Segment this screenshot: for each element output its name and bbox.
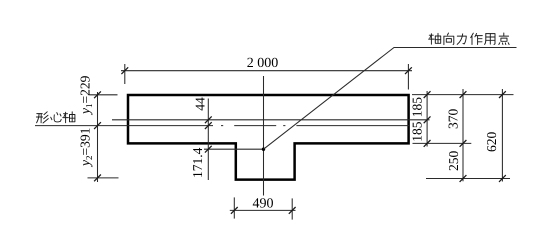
- interior dimension line 44/171.4: [207, 99, 209, 181]
- bottom dimension 490: dim line: [230, 209, 296, 211]
- left bottom extension (web bottom level): [88, 177, 119, 179]
- right extension row A (flange top): [412, 94, 514, 96]
- svg-text:2 000: 2 000: [247, 56, 279, 71]
- svg-text:44: 44: [193, 97, 208, 111]
- centroid axis (dash-dot): [35, 125, 410, 127]
- bottom ticks: [231, 207, 238, 214]
- svg-text:185: 185: [410, 121, 425, 142]
- svg-text:250: 250: [446, 151, 461, 172]
- dimension 2000: dim line: [121, 70, 412, 72]
- right extension row D (web bottom): [426, 178, 510, 180]
- extension line to force point: [204, 148, 264, 150]
- right dim line 620: [501, 89, 503, 182]
- bottom right extension: [291, 198, 293, 219]
- svg-text:490: 490: [253, 197, 274, 212]
- svg-text:185: 185: [410, 97, 425, 118]
- svg-text:171.4: 171.4: [190, 147, 205, 178]
- label 轴向力作用点: [429, 33, 510, 45]
- dimension 2000: ticks: [121, 67, 128, 74]
- svg-text:370: 370: [446, 109, 461, 130]
- right extension row C (flange bottom): [413, 142, 472, 144]
- dimension 2000: left extension: [124, 64, 126, 84]
- svg-text:620: 620: [484, 132, 499, 153]
- leader line: [264, 48, 517, 150]
- axial force point dot: [262, 148, 265, 151]
- section outline: [128, 95, 409, 180]
- svg-text:y1=229: y1=229: [78, 75, 95, 116]
- dimension 2000: right extension: [407, 64, 409, 90]
- left dimension line y1/y2: [97, 92, 99, 182]
- right ticks: [424, 91, 431, 98]
- bottom left extension: [233, 197, 235, 218]
- flange mid-height line: [112, 119, 430, 121]
- left top extension (flange top level): [90, 94, 118, 96]
- left ticks: [94, 91, 101, 98]
- vertical centerline: [263, 76, 265, 196]
- label 形心轴: [36, 112, 75, 123]
- right dim line 370/250: [462, 89, 464, 181]
- right dim line 185/185: [426, 91, 428, 147]
- interior ticks: [205, 116, 212, 123]
- svg-text:y2=391: y2=391: [78, 128, 95, 168]
